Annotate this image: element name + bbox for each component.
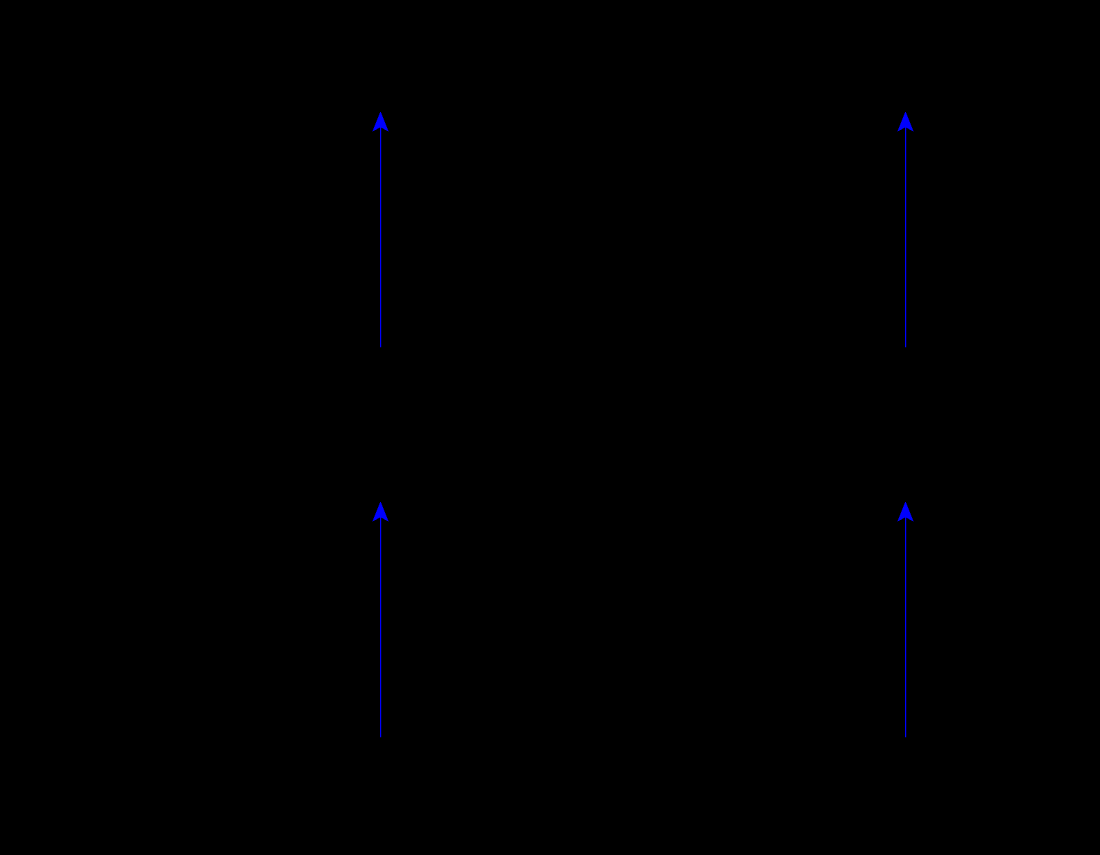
wire arrow A2 (top-right current/field arrow) [898,112,913,347]
wire arrow A1 (top-left current/field arrow) [373,112,388,347]
wire arrow A3 (bottom-left current/field arrow) [373,502,388,737]
wire arrow A4 (bottom-right current/field arrow) [898,502,913,737]
